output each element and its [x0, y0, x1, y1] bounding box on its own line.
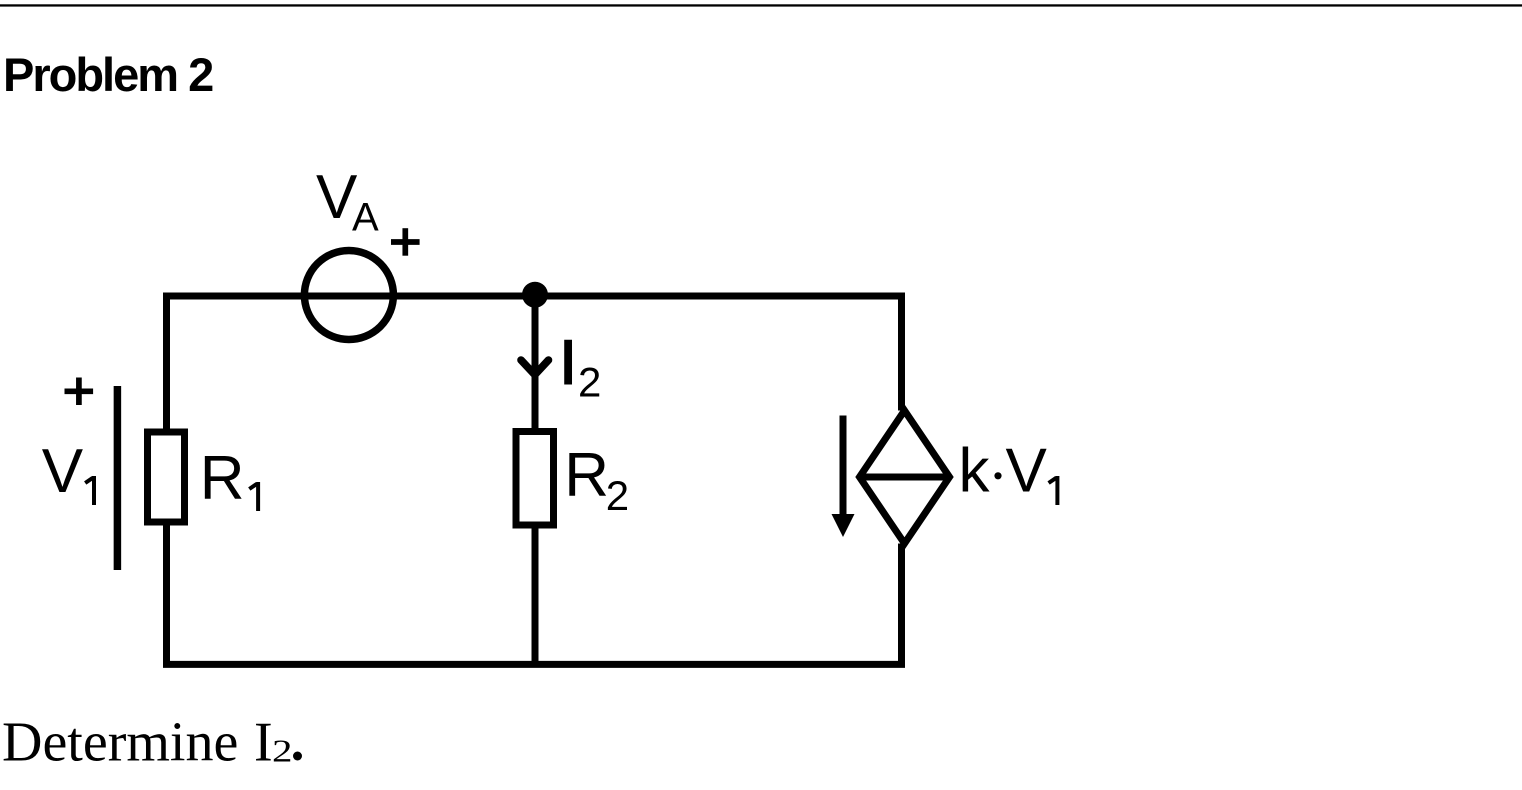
- svg-text:k: k: [959, 437, 991, 506]
- svg-text:I: I: [560, 329, 577, 398]
- svg-text:2: 2: [578, 359, 601, 406]
- svg-text:2: 2: [606, 472, 629, 519]
- svg-text:R: R: [200, 444, 245, 513]
- svg-text:R: R: [564, 441, 609, 510]
- svg-text:V: V: [42, 437, 84, 506]
- svg-text:V: V: [1006, 437, 1048, 506]
- svg-text:2: 2: [272, 733, 292, 768]
- svg-text:A: A: [352, 196, 379, 240]
- svg-text:I: I: [254, 712, 273, 774]
- svg-text:Determine: Determine: [2, 712, 238, 774]
- svg-text:Problem 2: Problem 2: [3, 48, 213, 101]
